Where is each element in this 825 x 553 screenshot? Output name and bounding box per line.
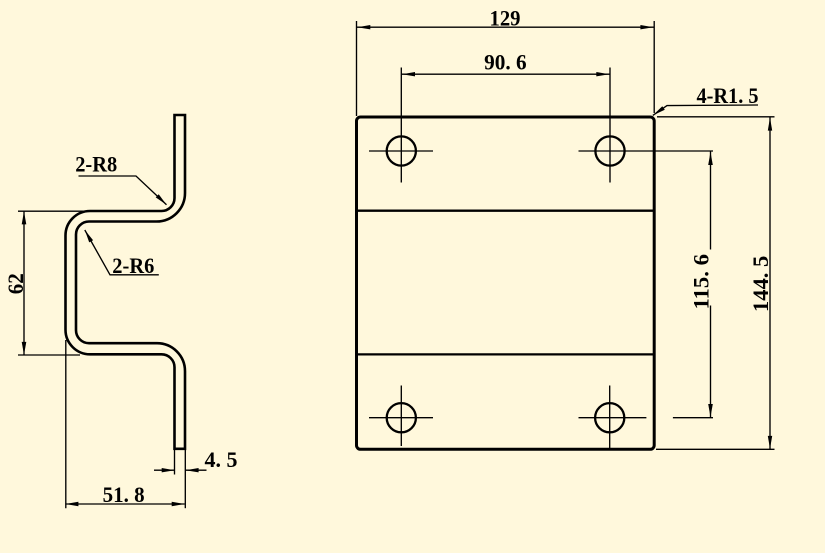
svg-text:4. 5: 4. 5 — [205, 447, 238, 472]
fold line upper — [358, 210, 654, 212]
hole top-right — [595, 136, 624, 165]
dimension 4.5 — [174, 450, 176, 475]
svg-text:2-R8: 2-R8 — [75, 152, 117, 177]
dimension 51.8 — [65, 340, 67, 508]
leader 2-R6 — [85, 230, 159, 275]
hole bottom-right — [595, 403, 624, 432]
svg-text:62: 62 — [3, 273, 28, 294]
centerline top-left hole — [400, 68, 402, 183]
dimension 62 — [18, 210, 92, 212]
svg-text:2-R6: 2-R6 — [112, 253, 154, 278]
svg-text:144. 5: 144. 5 — [748, 256, 773, 313]
svg-text:4-R1. 5: 4-R1. 5 — [697, 83, 759, 108]
dimension 129 — [356, 21, 358, 116]
hole top-left — [387, 136, 416, 165]
fold line lower — [358, 353, 654, 355]
centerline bottom-right hole — [609, 386, 611, 450]
leader 2-R8 — [79, 176, 167, 205]
front-view plate outline — [357, 117, 655, 449]
dimension 115.6 — [710, 152, 712, 250]
dimension 90.6 — [401, 73, 610, 75]
dimension 144.5 — [657, 116, 775, 118]
centerline top-right hole — [609, 68, 611, 183]
hole bottom-left — [387, 403, 416, 432]
leader 4-R1.5 — [653, 105, 758, 115]
svg-text:115. 6: 115. 6 — [689, 254, 714, 310]
side-view bent sheet profile outline — [66, 115, 186, 449]
svg-text:90. 6: 90. 6 — [484, 50, 527, 75]
centerline bottom-left hole — [400, 386, 402, 447]
svg-text:129: 129 — [490, 5, 521, 30]
svg-text:51. 8: 51. 8 — [103, 482, 145, 507]
